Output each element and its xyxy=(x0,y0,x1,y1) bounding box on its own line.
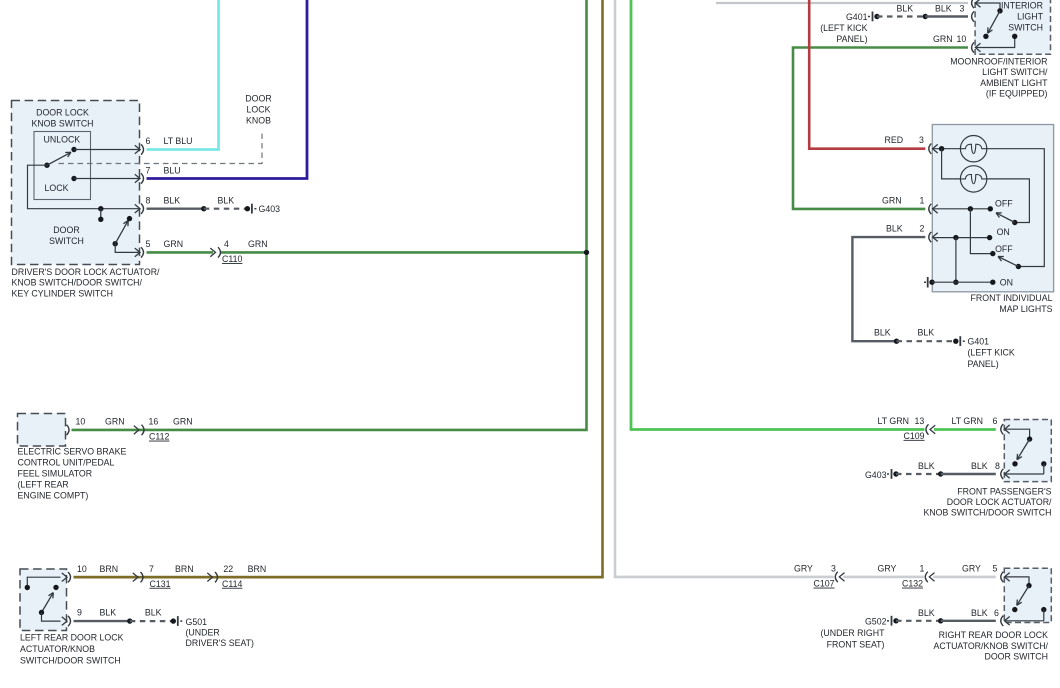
svg-text:RED: RED xyxy=(885,135,904,145)
svg-text:C112: C112 xyxy=(149,432,169,442)
svg-text:7: 7 xyxy=(149,564,154,574)
svg-text:GRN: GRN xyxy=(173,416,193,426)
svg-text:10: 10 xyxy=(76,416,86,426)
svg-text:(LEFT REAR: (LEFT REAR xyxy=(18,480,69,490)
svg-text:10: 10 xyxy=(957,34,967,44)
svg-text:GRN: GRN xyxy=(248,239,268,249)
svg-text:BLK: BLK xyxy=(971,461,988,471)
svg-text:1: 1 xyxy=(920,563,925,573)
svg-text:6: 6 xyxy=(993,416,998,426)
svg-text:SWITCH: SWITCH xyxy=(1008,22,1043,32)
svg-text:DOOR SWITCH: DOOR SWITCH xyxy=(984,652,1048,662)
svg-text:8: 8 xyxy=(146,195,151,205)
svg-text:GRN: GRN xyxy=(105,416,125,426)
svg-text:CONTROL UNIT/PEDAL: CONTROL UNIT/PEDAL xyxy=(18,458,115,468)
svg-text:C110: C110 xyxy=(222,254,242,264)
svg-text:ELECTRIC SERVO BRAKE: ELECTRIC SERVO BRAKE xyxy=(18,447,127,457)
svg-text:BLK: BLK xyxy=(145,608,162,618)
svg-text:3: 3 xyxy=(960,3,965,13)
svg-text:ENGINE COMPT): ENGINE COMPT) xyxy=(18,491,89,501)
svg-text:BLK: BLK xyxy=(218,195,235,205)
svg-text:GRN: GRN xyxy=(164,239,184,249)
svg-text:GRN: GRN xyxy=(882,195,902,205)
svg-text:9: 9 xyxy=(77,608,82,618)
svg-text:10: 10 xyxy=(77,564,87,574)
svg-text:BLK: BLK xyxy=(918,461,935,471)
svg-text:C131: C131 xyxy=(150,579,171,589)
svg-text:DOOR: DOOR xyxy=(53,225,79,235)
svg-text:LT GRN: LT GRN xyxy=(952,416,983,426)
svg-text:DOOR LOCK: DOOR LOCK xyxy=(36,108,89,118)
svg-text:ACTUATOR/KNOB: ACTUATOR/KNOB xyxy=(20,644,95,654)
svg-text:RIGHT REAR DOOR LOCK: RIGHT REAR DOOR LOCK xyxy=(939,630,1048,640)
svg-text:G401: G401 xyxy=(968,336,990,346)
svg-text:LEFT REAR DOOR LOCK: LEFT REAR DOOR LOCK xyxy=(20,633,124,643)
svg-text:GRN: GRN xyxy=(933,34,953,44)
svg-text:BLK: BLK xyxy=(100,608,117,618)
svg-text:ON: ON xyxy=(1000,277,1013,287)
svg-text:G401: G401 xyxy=(846,12,868,22)
svg-text:KEY CYLINDER SWITCH: KEY CYLINDER SWITCH xyxy=(12,288,114,298)
svg-text:BRN: BRN xyxy=(248,564,267,574)
svg-text:SWITCH/DOOR SWITCH: SWITCH/DOOR SWITCH xyxy=(20,656,121,666)
svg-text:LT GRN: LT GRN xyxy=(878,416,909,426)
svg-text:C114: C114 xyxy=(222,579,242,589)
svg-text:BLK: BLK xyxy=(164,195,181,205)
svg-text:8: 8 xyxy=(995,461,1000,471)
svg-text:1: 1 xyxy=(920,195,925,205)
svg-text:ACTUATOR/KNOB SWITCH/: ACTUATOR/KNOB SWITCH/ xyxy=(933,641,1048,651)
svg-text:BLU: BLU xyxy=(164,165,181,175)
svg-text:2: 2 xyxy=(920,224,925,234)
svg-text:LOCK: LOCK xyxy=(247,105,271,115)
svg-text:G501: G501 xyxy=(186,617,208,627)
svg-text:SWITCH: SWITCH xyxy=(49,236,84,246)
svg-text:DOOR: DOOR xyxy=(245,94,271,104)
svg-text:6: 6 xyxy=(994,608,999,618)
svg-text:3: 3 xyxy=(831,563,836,573)
svg-text:MOONROOF/INTERIOR: MOONROOF/INTERIOR xyxy=(950,57,1047,67)
svg-text:BRN: BRN xyxy=(100,564,119,574)
svg-text:BLK: BLK xyxy=(874,328,891,338)
svg-text:GRY: GRY xyxy=(878,563,897,573)
svg-text:GRY: GRY xyxy=(794,563,813,573)
svg-text:KNOB SWITCH/DOOR SWITCH: KNOB SWITCH/DOOR SWITCH xyxy=(923,508,1051,518)
svg-text:UNLOCK: UNLOCK xyxy=(44,135,81,145)
svg-text:ON: ON xyxy=(997,227,1010,237)
svg-text:PANEL): PANEL) xyxy=(968,359,999,369)
svg-text:13: 13 xyxy=(915,416,925,426)
svg-text:BLK: BLK xyxy=(886,224,903,234)
svg-text:DRIVER'S DOOR LOCK ACTUATOR/: DRIVER'S DOOR LOCK ACTUATOR/ xyxy=(12,267,161,277)
svg-text:DRIVER'S SEAT): DRIVER'S SEAT) xyxy=(186,638,255,648)
svg-text:7: 7 xyxy=(146,165,151,175)
svg-text:G403: G403 xyxy=(259,204,281,214)
svg-text:(UNDER: (UNDER xyxy=(186,628,220,638)
svg-text:LOCK: LOCK xyxy=(45,183,69,193)
svg-text:FRONT SEAT): FRONT SEAT) xyxy=(827,639,885,649)
svg-text:MAP LIGHTS: MAP LIGHTS xyxy=(999,304,1052,314)
svg-text:LIGHT: LIGHT xyxy=(1017,11,1044,21)
svg-text:BLK: BLK xyxy=(918,608,935,618)
svg-text:C109: C109 xyxy=(904,431,925,441)
svg-text:FRONT INDIVIDUAL: FRONT INDIVIDUAL xyxy=(971,293,1053,303)
svg-text:(IF EQUIPPED): (IF EQUIPPED) xyxy=(986,89,1048,99)
svg-text:3: 3 xyxy=(919,135,924,145)
svg-text:BLK: BLK xyxy=(897,3,914,13)
svg-text:(LEFT KICK: (LEFT KICK xyxy=(820,23,867,33)
svg-text:C132: C132 xyxy=(902,579,923,589)
svg-text:BLK: BLK xyxy=(971,608,988,618)
svg-text:INTERIOR: INTERIOR xyxy=(1001,0,1043,10)
svg-text:C107: C107 xyxy=(814,579,835,589)
svg-text:BRN: BRN xyxy=(175,564,194,574)
svg-text:LT BLU: LT BLU xyxy=(164,136,193,146)
svg-text:(LEFT KICK: (LEFT KICK xyxy=(968,348,1015,358)
svg-text:GRY: GRY xyxy=(962,563,981,573)
svg-text:KNOB SWITCH: KNOB SWITCH xyxy=(31,119,93,129)
svg-text:DOOR LOCK ACTUATOR/: DOOR LOCK ACTUATOR/ xyxy=(947,497,1052,507)
svg-text:22: 22 xyxy=(223,564,233,574)
svg-text:5: 5 xyxy=(993,563,998,573)
svg-text:PANEL): PANEL) xyxy=(836,34,867,44)
svg-text:G502: G502 xyxy=(865,617,887,627)
svg-text:LIGHT SWITCH/: LIGHT SWITCH/ xyxy=(982,67,1048,77)
svg-text:OFF: OFF xyxy=(995,244,1013,254)
svg-text:FRONT PASSENGER'S: FRONT PASSENGER'S xyxy=(957,487,1051,497)
svg-text:BLK: BLK xyxy=(935,3,952,13)
svg-text:KNOB SWITCH/DOOR SWITCH/: KNOB SWITCH/DOOR SWITCH/ xyxy=(12,278,143,288)
svg-text:5: 5 xyxy=(146,239,151,249)
svg-text:4: 4 xyxy=(224,239,229,249)
svg-text:KNOB: KNOB xyxy=(246,116,271,126)
svg-text:G403: G403 xyxy=(865,470,887,480)
svg-text:6: 6 xyxy=(146,136,151,146)
svg-text:AMBIENT LIGHT: AMBIENT LIGHT xyxy=(980,78,1048,88)
svg-text:FEEL SIMULATOR: FEEL SIMULATOR xyxy=(18,469,93,479)
svg-text:(UNDER RIGHT: (UNDER RIGHT xyxy=(820,628,885,638)
svg-text:BLK: BLK xyxy=(918,328,935,338)
svg-text:16: 16 xyxy=(149,416,159,426)
svg-text:OFF: OFF xyxy=(995,199,1013,209)
